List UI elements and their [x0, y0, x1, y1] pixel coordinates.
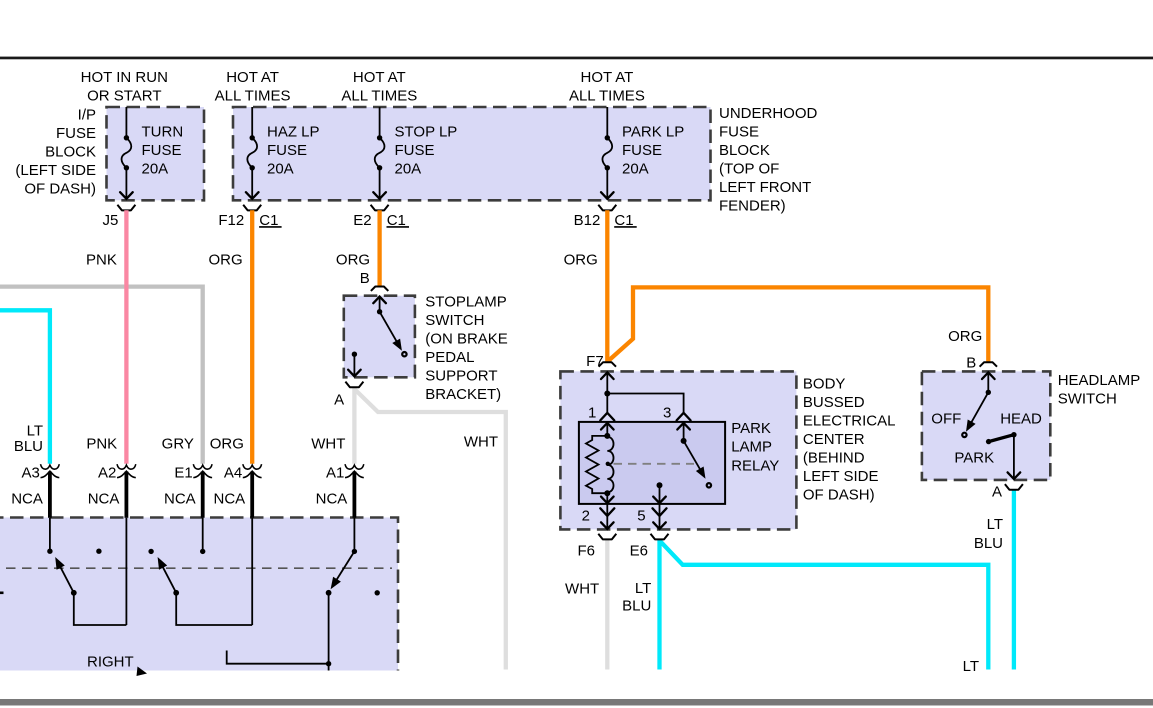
label HOT AT ALL TIMES (HAZ) [215, 69, 291, 105]
svg-text:E6: E6 [630, 543, 648, 560]
pin 2 [606, 504, 608, 529]
wire to pin 3 [607, 394, 683, 413]
svg-text:5: 5 [637, 508, 645, 525]
connector stoplamp B [371, 287, 388, 291]
svg-text:B12: B12 [574, 212, 601, 229]
bottom left box [0, 518, 398, 671]
svg-text:HOT IN RUN: HOT IN RUN [81, 69, 168, 86]
label PARK LAMP RELAY [731, 420, 779, 474]
svg-text:PARK LP: PARK LP [622, 124, 684, 141]
svg-text:PARK: PARK [954, 449, 994, 466]
svg-text:TURN: TURN [142, 124, 184, 141]
svg-text:OFF: OFF [931, 410, 961, 427]
label UNDERHOOD FUSE BLOCK (TOP OF LEFT FRONT FENDER) [719, 105, 818, 215]
svg-text:A2: A2 [98, 464, 116, 481]
svg-text:LEFT SIDE: LEFT SIDE [803, 468, 879, 485]
wire LT BLU E6 branch [660, 539, 989, 669]
label HOT AT ALL TIMES (STOP) [341, 69, 417, 105]
headlamp OFF contact [962, 433, 966, 437]
relay pin5 contact dot [657, 482, 663, 488]
wire WHT stoplamp A branch [354, 387, 505, 669]
E1 internal lead [202, 518, 204, 552]
stoplamp switch box [344, 296, 415, 378]
A3 internal lead [49, 518, 51, 551]
svg-text:GRY: GRY [162, 436, 194, 453]
connector B12 C1 [598, 205, 616, 211]
headlamp PARK contact dot [986, 439, 991, 444]
svg-text:ORG: ORG [948, 328, 982, 345]
switch2 arm [160, 561, 176, 592]
label BODY BUSSED ELECTRICAL CENTER (BEHIND LEFT SIDE OF DASH) [803, 375, 896, 503]
svg-text:SWITCH: SWITCH [1058, 391, 1117, 408]
fuse PARK LP FUSE 20A [601, 107, 684, 199]
pin 5 [659, 504, 661, 529]
svg-text:OF DASH): OF DASH) [803, 486, 875, 503]
svg-text:PNK: PNK [86, 436, 117, 453]
svg-text:F12: F12 [218, 212, 244, 229]
fuse HAZ LP FUSE 20A [246, 107, 320, 199]
svg-text:(TOP OF: (TOP OF [719, 160, 779, 177]
svg-text:BLU: BLU [974, 535, 1003, 552]
svg-text:LAMP: LAMP [731, 439, 772, 456]
headlamp PARK bridge bar [989, 435, 1014, 442]
switch1 arm [58, 561, 74, 592]
A1 contact dot [352, 549, 357, 554]
svg-text:B: B [966, 354, 976, 371]
switch2 open contact dot [148, 549, 153, 554]
wire ORG F12 to A4 [250, 210, 254, 463]
svg-text:ALL TIMES: ALL TIMES [569, 88, 645, 105]
wire LT BLU headlamp A [1012, 490, 1016, 670]
svg-text:BLU: BLU [622, 598, 651, 615]
svg-text:PEDAL: PEDAL [425, 349, 474, 366]
wire LT BLU horizontal+vertical to A3 [0, 310, 50, 464]
svg-text:2: 2 [582, 508, 590, 525]
A1 internal lead [353, 518, 355, 552]
svg-text:HAZ LP: HAZ LP [267, 124, 320, 141]
wire ORG B12 to F7 [605, 210, 609, 362]
pointer triangle [137, 667, 148, 677]
svg-text:HOT AT: HOT AT [353, 69, 406, 86]
svg-text:FUSE: FUSE [267, 142, 307, 159]
stoplamp open contact [402, 352, 406, 356]
svg-text:J5: J5 [103, 212, 119, 229]
A2 internal lead [125, 518, 127, 625]
relay coil input arrow [606, 423, 608, 436]
switch3 open contact dot [375, 590, 380, 595]
svg-text:FUSE: FUSE [395, 142, 435, 159]
svg-text:NCA: NCA [214, 491, 246, 508]
stoplamp output pin arrow [353, 354, 355, 376]
svg-text:20A: 20A [267, 161, 294, 178]
label HOT IN RUN OR START [81, 69, 168, 105]
relay resistor zigzag [586, 436, 607, 493]
relay switch pivot dot [681, 438, 687, 444]
switch1 open contact dot [96, 549, 101, 554]
headlamp bridge end dot [1011, 432, 1016, 437]
svg-text:BLOCK: BLOCK [45, 144, 96, 161]
BBEC input arrow [606, 372, 608, 394]
svg-text:NCA: NCA [88, 491, 120, 508]
svg-text:HOT AT: HOT AT [226, 69, 279, 86]
switch3 tail vertical [328, 593, 330, 671]
pin 3 [677, 413, 691, 421]
svg-text:BUSSED: BUSSED [803, 394, 865, 411]
svg-text:(BEHIND: (BEHIND [803, 449, 865, 466]
svg-text:(ON BRAKE: (ON BRAKE [425, 331, 508, 348]
relay coil top dot [604, 433, 610, 439]
switch1 pivot dot [71, 590, 77, 596]
relay coil [607, 437, 613, 492]
svg-text:ALL TIMES: ALL TIMES [215, 88, 291, 105]
connector stoplamp A [345, 382, 363, 388]
svg-text:HEAD: HEAD [1000, 410, 1042, 427]
terminal E1 [164, 464, 212, 518]
terminal A3 [11, 464, 59, 518]
svg-text:LT: LT [27, 423, 43, 440]
svg-text:BODY: BODY [803, 375, 846, 392]
connector E6 [651, 534, 669, 540]
svg-text:BRACKET): BRACKET) [425, 386, 501, 403]
terminal A1 [316, 464, 364, 518]
I/P fuse block box [107, 107, 205, 200]
label HEADLAMP SWITCH [1058, 372, 1141, 408]
svg-text:LT: LT [963, 658, 979, 675]
connector J5 [117, 205, 135, 211]
svg-text:A4: A4 [224, 464, 242, 481]
svg-text:NCA: NCA [164, 491, 196, 508]
svg-text:CENTER: CENTER [803, 431, 865, 448]
svg-text:NCA: NCA [11, 491, 43, 508]
BBEC box [560, 371, 796, 529]
svg-text:LT: LT [987, 516, 1003, 533]
bottom box linkage dashed line [0, 567, 392, 569]
E1 contact dot [200, 549, 205, 554]
svg-text:RELAY: RELAY [731, 457, 779, 474]
svg-text:E2: E2 [353, 212, 371, 229]
svg-text:RIGHT: RIGHT [87, 654, 134, 671]
connector E2 C1 [371, 205, 389, 211]
svg-text:A: A [334, 391, 344, 408]
terminal A2 [88, 464, 136, 518]
svg-text:UNDERHOOD: UNDERHOOD [719, 105, 818, 122]
svg-text:ORG: ORG [210, 436, 244, 453]
svg-text:LEFT FRONT: LEFT FRONT [719, 179, 811, 196]
stoplamp switch arm [380, 312, 401, 349]
switch2 pivot dot [173, 590, 179, 596]
relay coil output arrow [606, 493, 608, 503]
wire PNK J5 to A2 [124, 210, 128, 463]
headlamp switch arm to OFF [968, 392, 988, 428]
fuse STOP LP FUSE 20A [373, 107, 457, 199]
relay switch arm [684, 441, 704, 476]
svg-text:A3: A3 [22, 464, 40, 481]
svg-text:E1: E1 [174, 464, 192, 481]
switch3 arm [333, 551, 355, 585]
svg-text:STOPLAMP: STOPLAMP [425, 294, 506, 311]
svg-text:(LEFT SIDE: (LEFT SIDE [15, 162, 96, 179]
svg-text:HEADLAMP: HEADLAMP [1058, 372, 1141, 389]
relay pin5 output arrow [659, 485, 661, 503]
svg-text:BLOCK: BLOCK [719, 142, 770, 159]
svg-text:OF DASH): OF DASH) [24, 180, 96, 197]
underhood fuse block box [233, 107, 711, 200]
relay coil linkage dot [606, 462, 610, 466]
wire to pin 1 [606, 394, 608, 413]
headlamp output wire [1013, 435, 1015, 479]
terminal A4 [214, 464, 262, 518]
connector F6 [598, 534, 616, 540]
svg-text:ORG: ORG [336, 252, 370, 269]
relay linkage dashed line [614, 463, 695, 465]
switch3 junction dot [326, 661, 331, 666]
svg-text:A1: A1 [326, 464, 344, 481]
stoplamp output contact dot [352, 352, 357, 357]
relay coil bottom dot [604, 490, 610, 496]
svg-text:B: B [360, 270, 370, 287]
relay open contact [707, 483, 711, 487]
connector F12 C1 [243, 205, 261, 211]
svg-text:I/P: I/P [78, 107, 96, 124]
switch1 common path [74, 593, 127, 625]
svg-text:FUSE: FUSE [142, 142, 182, 159]
svg-text:BLU: BLU [14, 438, 43, 455]
switch3 branch horizontal [227, 651, 329, 664]
svg-text:WHT: WHT [311, 436, 345, 453]
svg-text:LT: LT [635, 580, 651, 597]
top rule [0, 57, 1153, 60]
svg-text:SUPPORT: SUPPORT [425, 368, 497, 385]
svg-text:FUSE: FUSE [622, 142, 662, 159]
label I/P FUSE BLOCK (LEFT SIDE OF DASH) [15, 107, 96, 198]
label HOT AT ALL TIMES (PARK) [569, 69, 645, 105]
svg-text:20A: 20A [395, 161, 422, 178]
svg-text:20A: 20A [622, 161, 649, 178]
svg-text:ELECTRICAL: ELECTRICAL [803, 412, 896, 429]
svg-text:20A: 20A [142, 161, 169, 178]
A4 internal lead [251, 518, 253, 625]
wire GRY horizontal+vertical to E1 [0, 287, 203, 464]
svg-text:SWITCH: SWITCH [425, 312, 484, 329]
switch3 pivot dot [326, 590, 332, 596]
connector headlamp B [980, 362, 997, 366]
svg-text:FENDER): FENDER) [719, 197, 786, 214]
svg-text:WHT: WHT [464, 434, 498, 451]
svg-text:STOP LP: STOP LP [395, 124, 458, 141]
svg-text:FUSE: FUSE [56, 125, 96, 142]
wire ORG branch to headlamp B [608, 287, 989, 362]
svg-text:WHT: WHT [565, 580, 599, 597]
svg-text:OR START: OR START [87, 88, 161, 105]
svg-text:FUSE: FUSE [719, 123, 759, 140]
stoplamp input pin arrow [379, 297, 381, 312]
svg-text:1: 1 [588, 405, 596, 422]
relay switch input arrow [683, 423, 685, 441]
fuse TURN FUSE 20A [120, 107, 183, 199]
left edge stub [0, 591, 4, 594]
svg-text:A: A [992, 484, 1002, 501]
svg-text:ORG: ORG [564, 252, 598, 269]
label STOPLAMP SWITCH (ON BRAKE PEDAL SUPPORT BRACKET) [425, 294, 508, 404]
A3 contact dot [47, 549, 52, 554]
pin 1 [600, 413, 614, 421]
stoplamp switch pivot dot [377, 309, 382, 314]
svg-text:HOT AT: HOT AT [581, 69, 634, 86]
svg-text:F7: F7 [586, 353, 604, 370]
park lamp relay box [579, 422, 725, 504]
svg-text:ALL TIMES: ALL TIMES [341, 88, 417, 105]
switch2 common path [176, 593, 252, 625]
svg-text:NCA: NCA [316, 491, 348, 508]
bottom gray bar [0, 699, 1153, 706]
wire WHT F6 [605, 539, 609, 669]
junction dot BBEC [604, 391, 610, 397]
headlamp pivot dot [986, 390, 991, 395]
headlamp switch box [922, 371, 1050, 480]
svg-text:F6: F6 [577, 543, 595, 560]
svg-text:PARK: PARK [731, 420, 771, 437]
svg-text:PNK: PNK [86, 252, 117, 269]
svg-text:3: 3 [663, 405, 671, 422]
connector headlamp A [1005, 484, 1023, 490]
wire ORG E2 to stoplamp B [377, 210, 381, 286]
svg-text:ORG: ORG [209, 252, 243, 269]
connector F7 [599, 362, 616, 366]
headlamp input arrow [987, 372, 989, 392]
